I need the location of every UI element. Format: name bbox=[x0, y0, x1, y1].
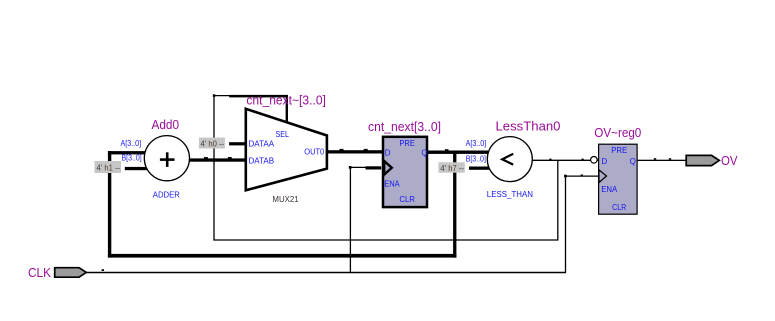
svg-text:4' h1 --: 4' h1 -- bbox=[97, 164, 121, 173]
wire net CLK bbox=[86, 167, 598, 272]
wire OV~reg0 Q to output pin OV bbox=[637, 158, 686, 161]
constant 4'h0 bbox=[199, 138, 225, 149]
wire LessThan0 output to OV~reg0 D bubble bbox=[533, 159, 599, 161]
svg-text:Q: Q bbox=[630, 157, 636, 166]
wire net select: LessThan0 output to MUX21 SEL bbox=[214, 95, 558, 240]
svg-text:Q: Q bbox=[421, 149, 427, 158]
input pin CLK bbox=[55, 268, 87, 278]
junction dot SEL net corner bbox=[213, 94, 216, 97]
svg-text:CLR: CLR bbox=[399, 195, 415, 204]
less-than LessThan0 symbol bbox=[487, 137, 532, 182]
svg-text:DATAA: DATAA bbox=[249, 139, 275, 148]
svg-text:SEL: SEL bbox=[276, 130, 290, 139]
constant 4'h7 bbox=[438, 162, 464, 173]
svg-text:OUT0: OUT0 bbox=[304, 148, 324, 157]
mux MUX21 symbol bbox=[246, 109, 327, 191]
svg-text:OV: OV bbox=[721, 154, 738, 168]
wire bus Q of cnt_next to LessThan0 A input bbox=[428, 149, 488, 154]
junction dot OV~reg0 clock corner bbox=[564, 175, 567, 178]
wire stub constant 4'h7 to LessThan0 B bbox=[469, 167, 491, 170]
inverter bubble at OV~reg0 D input bbox=[591, 157, 598, 164]
register cnt_next[3..0] bbox=[383, 137, 427, 207]
svg-text:PRE: PRE bbox=[399, 139, 415, 148]
svg-text:CLR: CLR bbox=[612, 203, 626, 212]
wire ticks on LessThan output net bbox=[549, 159, 583, 161]
svg-text:ENA: ENA bbox=[601, 185, 618, 194]
wire stub constant 4'h0 to MUX21 DATAA bbox=[229, 142, 246, 145]
svg-text:cnt_next[3..0]: cnt_next[3..0] bbox=[368, 120, 441, 134]
svg-text:B[3..0]: B[3..0] bbox=[122, 154, 142, 163]
wire thick stub into cnt_next clock pin bbox=[366, 166, 382, 169]
svg-text:4' h7 --: 4' h7 -- bbox=[440, 164, 464, 173]
adder Add0 symbol bbox=[144, 136, 189, 181]
svg-text:ADDER: ADDER bbox=[153, 190, 180, 199]
wire tick on CLK net bbox=[102, 269, 104, 271]
svg-text:A[3..0]: A[3..0] bbox=[121, 139, 142, 148]
junction dot cnt_next clock corner bbox=[349, 166, 352, 169]
svg-text:4' h0 --: 4' h0 -- bbox=[201, 139, 225, 148]
svg-text:OV~reg0: OV~reg0 bbox=[594, 126, 641, 140]
wire bus Add0 output to MUX21 DATAB bbox=[189, 157, 246, 162]
svg-text:CLK: CLK bbox=[28, 266, 52, 280]
svg-text:MUX21: MUX21 bbox=[272, 195, 299, 204]
svg-text:D: D bbox=[385, 149, 391, 158]
svg-text:ENA: ENA bbox=[384, 179, 400, 188]
svg-text:PRE: PRE bbox=[611, 146, 627, 155]
wire thick stub into MUX21 SEL pin bbox=[229, 95, 288, 98]
svg-text:cnt_next~[3..0]: cnt_next~[3..0] bbox=[246, 93, 326, 107]
svg-text:LESS_THAN: LESS_THAN bbox=[487, 190, 533, 199]
svg-text:Add0: Add0 bbox=[152, 118, 180, 132]
svg-text:LessThan0: LessThan0 bbox=[496, 119, 561, 133]
wire bus feedback cnt_next to Add0 A input bbox=[108, 151, 457, 258]
svg-text:B[3..0]: B[3..0] bbox=[466, 154, 486, 163]
wire bus MUX21 OUT0 to cnt_next D bbox=[327, 149, 383, 154]
svg-text:DATAB: DATAB bbox=[249, 156, 275, 165]
svg-text:A[3..0]: A[3..0] bbox=[466, 139, 487, 148]
wire tick on OV~reg0 clock stub bbox=[581, 175, 583, 177]
register OV~reg0 bbox=[599, 144, 638, 214]
constant 4'h1 bbox=[95, 161, 122, 173]
output pin OV bbox=[686, 155, 719, 165]
wire stub constant 4'h1 to Add0 B bbox=[125, 167, 148, 170]
svg-text:D: D bbox=[601, 157, 607, 166]
